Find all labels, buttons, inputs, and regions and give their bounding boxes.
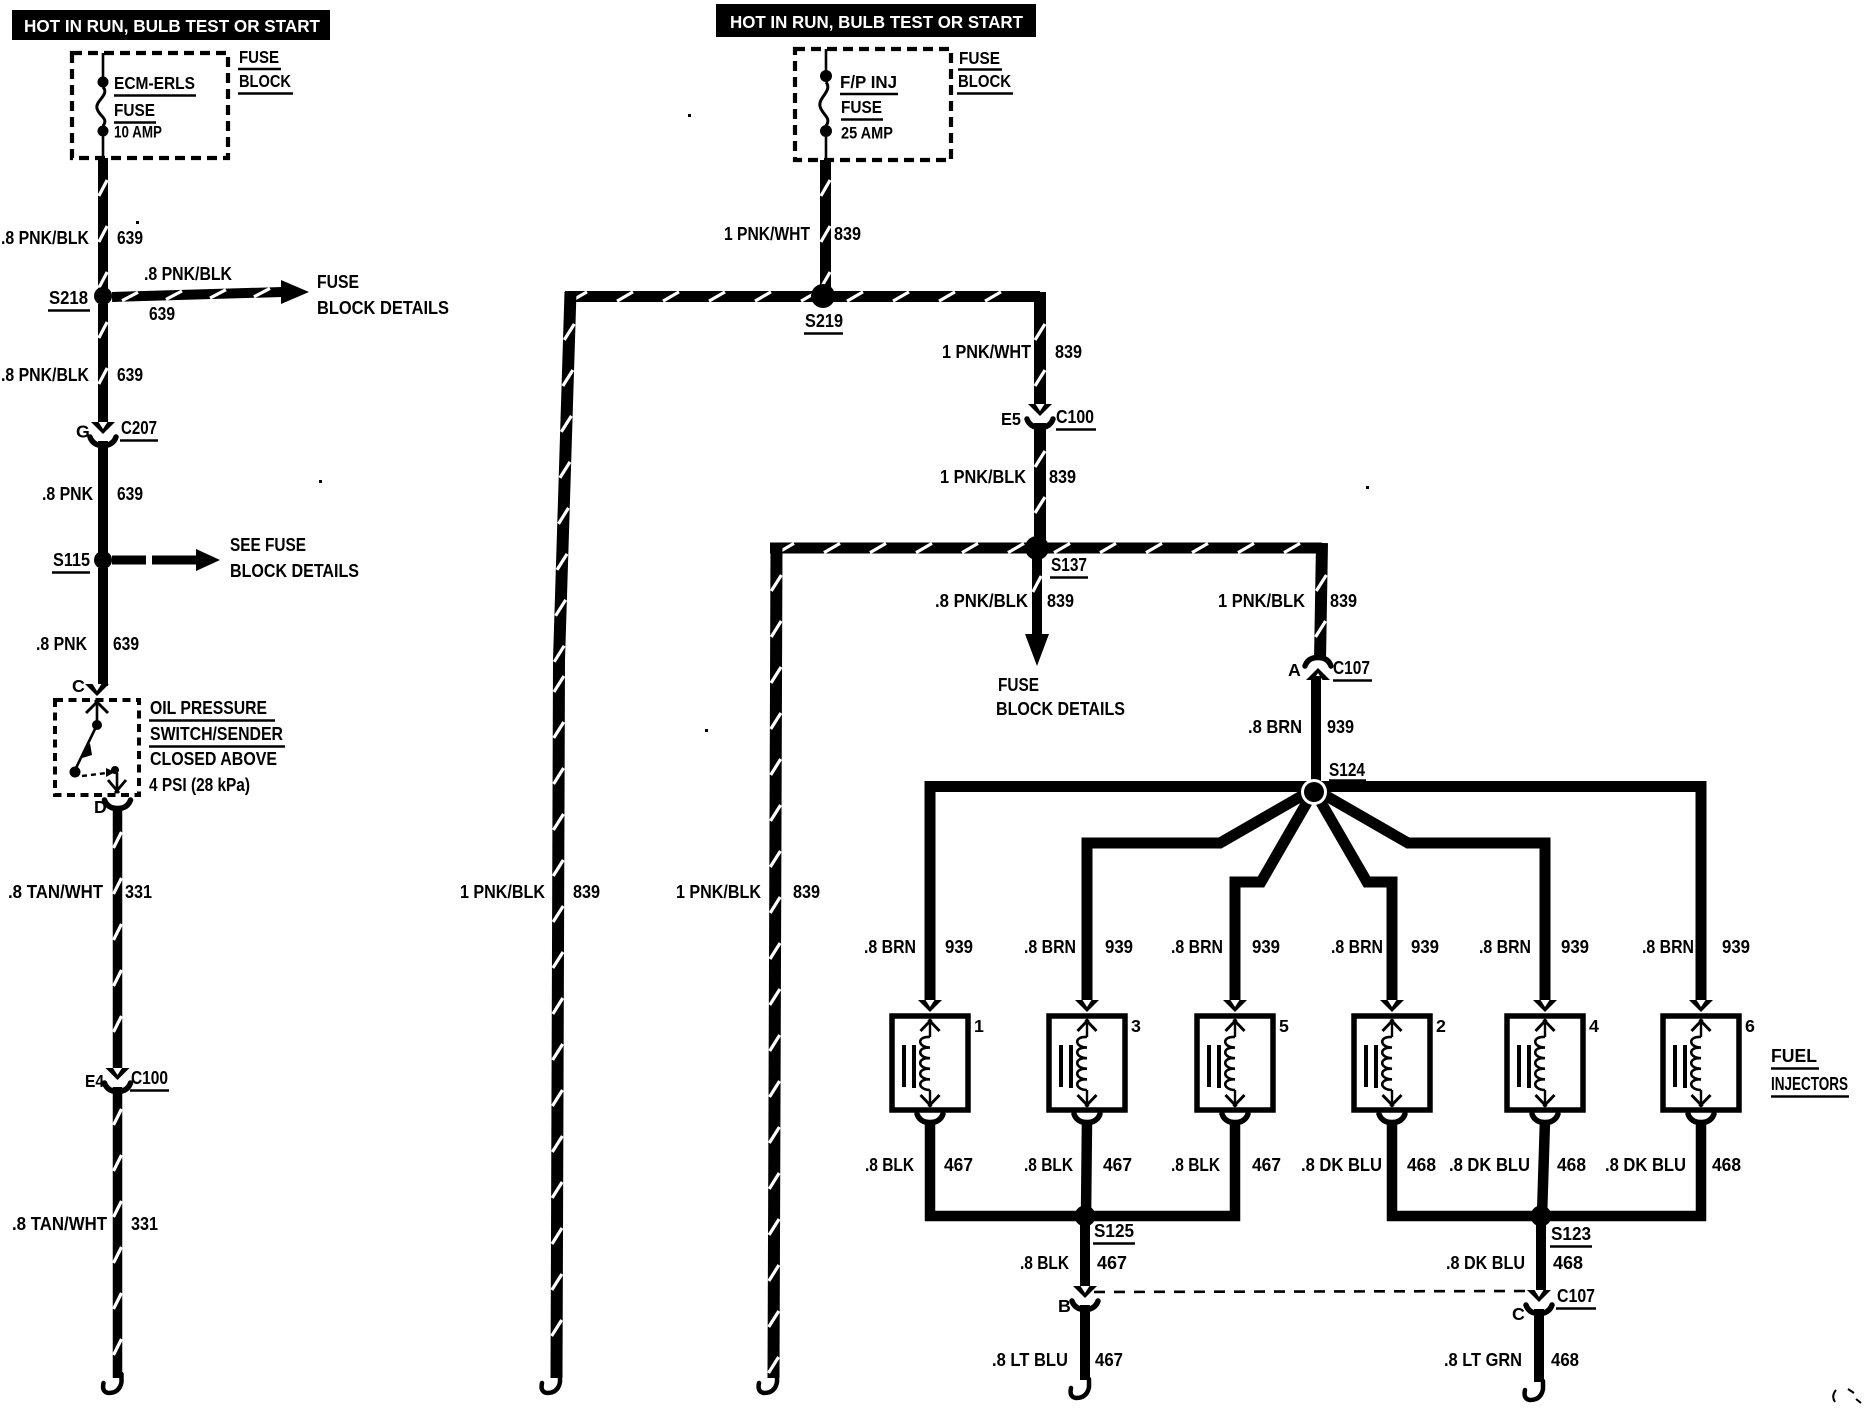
svg-text:5: 5	[1279, 1016, 1289, 1036]
fuel injector 5	[1197, 1000, 1289, 1123]
svg-text:3: 3	[1131, 1016, 1141, 1036]
svg-text:FUSE: FUSE	[959, 48, 1000, 68]
wire 468 .8 DK BLU S123 to C C107	[1536, 1221, 1546, 1292]
svg-text:839: 839	[1330, 591, 1357, 611]
label F/P INJ FUSE 25 AMP	[840, 72, 898, 143]
label .8 PNK/BLK 639 (above C207)	[1, 365, 143, 385]
svg-text:.8 BLK: .8 BLK	[865, 1155, 914, 1175]
svg-text:639: 639	[117, 484, 143, 504]
wire continuation curl (S219 left leg)	[542, 1374, 560, 1393]
svg-text:SWITCH/SENDER: SWITCH/SENDER	[150, 724, 283, 744]
svg-text:BLOCK: BLOCK	[239, 71, 291, 91]
connector C100 pin E4	[85, 1068, 169, 1092]
svg-text:939: 939	[1252, 937, 1280, 957]
svg-text:1 PNK/BLK: 1 PNK/BLK	[940, 467, 1026, 487]
splice S115	[52, 550, 112, 573]
wire 331 .8 TAN/WHT switch to E4 C100 (hatched)	[114, 806, 122, 1068]
svg-text:468: 468	[1551, 1350, 1579, 1370]
label (.8 DK BLU 468 inj4)	[1449, 1155, 1586, 1175]
svg-text:.8 BRN: .8 BRN	[864, 937, 916, 957]
svg-text:1 PNK/BLK: 1 PNK/BLK	[460, 882, 545, 902]
svg-text:331: 331	[125, 882, 152, 902]
svg-text:939: 939	[1105, 937, 1133, 957]
connector C100 pin E5	[1001, 404, 1096, 430]
svg-text:.8 PNK/BLK: .8 PNK/BLK	[935, 591, 1028, 611]
svg-text:939: 939	[1411, 937, 1439, 957]
connector C207 pin G	[76, 418, 158, 446]
wire 468 .8 DK BLU injector 6 to S123	[1541, 1120, 1701, 1216]
label .8 LT GRN 468	[1444, 1350, 1579, 1370]
wire 839 1 PNK/WHT S219 to E5 (hatched)	[1035, 292, 1045, 406]
label .8 PNK/BLK 639 (branch)	[144, 264, 232, 324]
svg-text:467: 467	[1095, 1350, 1123, 1370]
svg-text:FUSE: FUSE	[317, 272, 359, 292]
svg-text:.8 PNK: .8 PNK	[36, 634, 87, 654]
label FUSE BLOCK DETAILS (center)	[996, 675, 1125, 719]
wire 839 .8 PNK/BLK S137 down arrow to fuse block details (hatched)	[1025, 554, 1049, 666]
splice S124	[1301, 760, 1366, 805]
oil pressure switch/sender dashed box	[55, 700, 139, 795]
label FUSE BLOCK (right)	[957, 48, 1013, 94]
svg-text:E5: E5	[1001, 409, 1021, 429]
svg-text:839: 839	[793, 882, 820, 902]
svg-text:FUSE: FUSE	[841, 97, 882, 117]
svg-text:HOT IN RUN, BULB TEST OR START: HOT IN RUN, BULB TEST OR START	[730, 12, 1023, 32]
svg-text:E4: E4	[85, 1071, 104, 1091]
svg-text:467: 467	[1252, 1155, 1281, 1175]
wire 839 1 PNK/BLK S219 left leg to bottom (hatched)	[552, 292, 575, 1378]
label (.8 BLK 467 inj5)	[1171, 1155, 1281, 1175]
label 1 PNK/BLK 839 (left leg)	[460, 882, 600, 902]
svg-text:.8 LT GRN: .8 LT GRN	[1444, 1350, 1522, 1370]
svg-text:BLOCK DETAILS: BLOCK DETAILS	[230, 561, 359, 581]
svg-text:FUEL: FUEL	[1771, 1046, 1817, 1066]
svg-text:1 PNK/BLK: 1 PNK/BLK	[1218, 591, 1305, 611]
svg-text:639: 639	[113, 634, 139, 654]
label .8 BRN 939 (above S124)	[1248, 717, 1354, 737]
svg-text:.8 PNK/BLK: .8 PNK/BLK	[1, 228, 89, 248]
label .8 BRN 939 (injector 3)	[1024, 937, 1133, 957]
svg-text:.8 BRN: .8 BRN	[1479, 937, 1531, 957]
wire S137 horizontal run (hatched)	[770, 543, 1322, 552]
svg-text:939: 939	[945, 937, 973, 957]
svg-text:ECM-ERLS: ECM-ERLS	[114, 73, 195, 93]
node: HOT IN RUN, BULB TEST OR START feed (left)	[12, 10, 330, 40]
svg-text:1 PNK/WHT: 1 PNK/WHT	[942, 342, 1031, 362]
splice S123	[1531, 1206, 1593, 1247]
svg-text:.8 BRN: .8 BRN	[1024, 937, 1076, 957]
fuel injector 3	[1049, 1000, 1141, 1123]
label (.8 DK BLU 468 inj2)	[1301, 1155, 1436, 1175]
svg-text:939: 939	[1327, 717, 1354, 737]
node: HOT IN RUN, BULB TEST OR START feed (right)	[716, 4, 1036, 37]
svg-text:.8 PNK/BLK: .8 PNK/BLK	[1, 365, 89, 385]
svg-text:C107: C107	[1333, 658, 1370, 678]
wire 331 .8 TAN/WHT E4 to bottom (hatched)	[114, 1087, 122, 1378]
splice S125	[1075, 1206, 1136, 1244]
svg-text:.8 DK BLU: .8 DK BLU	[1446, 1253, 1525, 1273]
arrow S115 see fuse block details	[112, 549, 220, 571]
svg-text:F/P INJ: F/P INJ	[840, 72, 897, 92]
wire 639 .8 PNK S115 to oil pressure switch	[98, 568, 108, 686]
svg-text:467: 467	[1097, 1253, 1127, 1273]
wire S124 branch to injector 5	[1235, 792, 1313, 1004]
wire 639 .8 PNK C207 to S115	[98, 441, 108, 553]
svg-text:1: 1	[974, 1016, 984, 1036]
svg-text:HOT IN RUN, BULB TEST OR START: HOT IN RUN, BULB TEST OR START	[24, 16, 320, 36]
wire continuation curl (LT GRN)	[1525, 1381, 1543, 1400]
wire 839 1 PNK/WHT fuse to S219 (hatched)	[821, 160, 830, 291]
connector pin C at oil pressure switch	[72, 676, 109, 696]
wire S124 branch to injector 2	[1315, 792, 1392, 1004]
label FUSE BLOCK DETAILS (left branch)	[317, 272, 449, 318]
svg-text:839: 839	[834, 224, 861, 244]
svg-text:468: 468	[1553, 1253, 1583, 1273]
label .8 PNK/BLK 639 (upper left)	[1, 228, 143, 248]
wire S124 branch to injector 3	[1087, 790, 1312, 1004]
svg-text:.8 BRN: .8 BRN	[1171, 937, 1223, 957]
svg-text:1 PNK/WHT: 1 PNK/WHT	[724, 224, 810, 244]
svg-text:468: 468	[1712, 1155, 1741, 1175]
svg-text:.8 PNK/BLK: .8 PNK/BLK	[144, 264, 232, 284]
svg-text:S218: S218	[49, 288, 88, 308]
svg-text:2: 2	[1436, 1016, 1446, 1036]
svg-text:467: 467	[944, 1155, 973, 1175]
label FUSE BLOCK (left)	[238, 47, 293, 94]
wire 468 .8 DK BLU injector 4 to S123	[1542, 1120, 1545, 1216]
svg-text:.8 BRN: .8 BRN	[1248, 717, 1302, 737]
wire 467 .8 BLK injector 1 to S125	[930, 1120, 1085, 1216]
label .8 DK BLU 468 (below S123)	[1446, 1253, 1583, 1273]
fuel injector 2	[1354, 1000, 1446, 1123]
label .8 PNK 639 (above switch)	[36, 634, 139, 654]
svg-text:A: A	[1288, 660, 1301, 680]
label (.8 BLK 467 inj3)	[1024, 1155, 1132, 1175]
svg-text:.8 TAN/WHT: .8 TAN/WHT	[8, 882, 103, 902]
svg-text:.8 DK BLU: .8 DK BLU	[1605, 1155, 1686, 1175]
label .8 BRN 939 (injector 6)	[1642, 937, 1750, 957]
wire S124 branch to injector 4	[1316, 790, 1545, 1004]
wire 639 .8 PNK/BLK fuse to S218 (hatched)	[99, 158, 107, 291]
label .8 PNK 639 (above S115)	[42, 484, 143, 504]
svg-text:.8 BLK: .8 BLK	[1171, 1155, 1220, 1175]
svg-text:C: C	[1512, 1304, 1525, 1324]
svg-text:839: 839	[1049, 467, 1076, 487]
svg-text:S125: S125	[1094, 1221, 1134, 1241]
svg-text:6: 6	[1745, 1016, 1755, 1036]
wire 467 .8 BLK S125 to B C107	[1080, 1221, 1090, 1288]
svg-text:BLOCK DETAILS: BLOCK DETAILS	[996, 699, 1125, 719]
fuse F/P INJ FUSE 25 AMP	[820, 49, 832, 160]
label .8 TAN/WHT 331 (lower)	[12, 1214, 158, 1234]
svg-text:467: 467	[1103, 1155, 1132, 1175]
label .8 BRN 939 (injector 1)	[864, 937, 973, 957]
svg-text:.8 TAN/WHT: .8 TAN/WHT	[12, 1214, 107, 1234]
label 1 PNK/WHT 839 (above S219)	[724, 224, 861, 244]
wire 839 1 PNK/BLK E5 to S137 (hatched)	[1035, 423, 1045, 542]
splice S219	[804, 284, 843, 334]
wire S219 horizontal run (hatched)	[565, 292, 1040, 301]
svg-text:839: 839	[1055, 342, 1082, 362]
svg-text:839: 839	[1047, 591, 1074, 611]
fuse ECM-ERLS FUSE 10 AMP	[97, 53, 109, 158]
label OIL PRESSURE SWITCH/SENDER CLOSED ABOVE 4 PSI (28 kPa)	[149, 698, 285, 795]
splice S218	[48, 287, 112, 311]
fuel injector 4	[1507, 1000, 1599, 1123]
svg-text:G: G	[76, 422, 90, 442]
connector C107 pin B	[1058, 1286, 1098, 1316]
svg-text:4 PSI (28 kPa): 4 PSI (28 kPa)	[149, 775, 250, 795]
label (.8 BLK 467 inj1)	[865, 1155, 973, 1175]
svg-text:839: 839	[573, 882, 600, 902]
wire 939 .8 BRN C107 to S124	[1311, 676, 1321, 786]
svg-text:CLOSED ABOVE: CLOSED ABOVE	[150, 749, 277, 769]
svg-text:.8 BLK: .8 BLK	[1024, 1155, 1073, 1175]
connector C107 pin A	[1288, 658, 1372, 681]
svg-text:.8 BRN: .8 BRN	[1642, 937, 1694, 957]
svg-text:939: 939	[1722, 937, 1750, 957]
wire 467 .8 LT BLU B to bottom	[1080, 1305, 1090, 1380]
svg-text:OIL PRESSURE: OIL PRESSURE	[150, 698, 267, 718]
label .8 LT BLU 467	[992, 1350, 1123, 1370]
svg-text:.8 DK BLU: .8 DK BLU	[1449, 1155, 1530, 1175]
svg-text:639: 639	[149, 304, 175, 324]
svg-text:C107: C107	[1557, 1286, 1595, 1306]
dashed connector line B to C (C107)	[1094, 1291, 1528, 1292]
label 1 PNK/BLK 839 (above S137)	[940, 467, 1076, 487]
wire 639 .8 PNK/BLK S218 to C207 (hatched)	[99, 304, 107, 426]
svg-text:.8 BLK: .8 BLK	[1020, 1253, 1069, 1273]
label .8 BRN 939 (injector 4)	[1479, 937, 1589, 957]
svg-text:FUSE: FUSE	[998, 675, 1039, 695]
svg-text:C100: C100	[1056, 407, 1094, 427]
svg-text:639: 639	[117, 365, 143, 385]
label SEE FUSE BLOCK DETAILS	[230, 535, 359, 581]
label 1 PNK/BLK 839 (right leg)	[1218, 591, 1357, 611]
svg-text:BLOCK DETAILS: BLOCK DETAILS	[317, 298, 449, 318]
label .8 BRN 939 (injector 5)	[1171, 937, 1280, 957]
label .8 TAN/WHT 331 (upper)	[8, 882, 152, 902]
svg-text:939: 939	[1561, 937, 1589, 957]
wire 639 .8 PNK/BLK S218 branch arrow to fuse block details (hatched)	[112, 280, 309, 304]
label 1 PNK/BLK 839 (S137 left leg)	[676, 882, 820, 902]
wire 468 .8 DK BLU injector 2 to S123	[1392, 1120, 1541, 1216]
svg-text:FUSE: FUSE	[239, 47, 279, 67]
wire continuation curl (LT BLU)	[1071, 1379, 1089, 1398]
label .8 BLK 467 (below S125)	[1020, 1253, 1127, 1273]
svg-text:BLOCK: BLOCK	[958, 71, 1011, 91]
svg-text:.8 PNK: .8 PNK	[42, 484, 93, 504]
wire 467 .8 BLK injector 3 to S125	[1086, 1120, 1087, 1216]
svg-text:FUSE: FUSE	[114, 100, 155, 120]
svg-text:C: C	[72, 676, 85, 696]
svg-text:331: 331	[131, 1214, 158, 1234]
wire continuation curl (left circuit)	[103, 1374, 121, 1393]
label (.8 DK BLU 468 inj6)	[1605, 1155, 1741, 1175]
svg-text:C100: C100	[131, 1068, 168, 1088]
wire continuation curl (S137 left leg)	[759, 1374, 777, 1393]
wire 839 1 PNK/BLK S137 right leg to C107 (hatched)	[1316, 543, 1327, 660]
svg-text:468: 468	[1407, 1155, 1436, 1175]
wire 468 .8 LT GRN C to bottom	[1534, 1309, 1544, 1382]
svg-text:B: B	[1058, 1296, 1071, 1316]
wire 839 1 PNK/BLK S137 left leg to bottom (hatched)	[769, 543, 782, 1378]
connector pin D below oil pressure switch	[94, 797, 131, 817]
svg-text:S123: S123	[1551, 1224, 1591, 1244]
svg-text:S115: S115	[53, 550, 90, 570]
fuse block (left) dashed outline	[72, 53, 228, 158]
label ECM-ERLS FUSE 10 AMP	[114, 73, 196, 142]
label .8 PNK/BLK 839 (down arrow)	[935, 591, 1074, 611]
svg-text:639: 639	[117, 228, 143, 248]
label FUEL INJECTORS	[1771, 1046, 1849, 1097]
svg-text:C207: C207	[121, 418, 157, 438]
svg-text:.8 DK BLU: .8 DK BLU	[1301, 1155, 1382, 1175]
svg-text:.8 BRN: .8 BRN	[1331, 937, 1383, 957]
svg-text:S124: S124	[1329, 760, 1366, 780]
svg-text:10 AMP: 10 AMP	[114, 124, 162, 142]
connector C107 pin C	[1512, 1286, 1596, 1324]
svg-text:.8 LT BLU: .8 LT BLU	[992, 1350, 1068, 1370]
svg-text:INJECTORS: INJECTORS	[1771, 1074, 1848, 1094]
svg-text:468: 468	[1557, 1155, 1586, 1175]
svg-text:SEE FUSE: SEE FUSE	[230, 535, 306, 555]
wire 467 .8 BLK injector 5 to S125	[1085, 1120, 1235, 1216]
svg-text:4: 4	[1589, 1016, 1599, 1036]
wire S124 right horizontal to injector 6	[1314, 787, 1701, 1005]
wire S124 left horizontal to injector 1	[930, 787, 1314, 1005]
svg-text:1 PNK/BLK: 1 PNK/BLK	[676, 882, 761, 902]
label 1 PNK/WHT 839 (above E5)	[942, 342, 1082, 362]
label .8 BRN 939 (injector 2)	[1331, 937, 1439, 957]
svg-text:S219: S219	[805, 311, 843, 331]
svg-text:S137: S137	[1051, 555, 1087, 575]
svg-text:25 AMP: 25 AMP	[841, 125, 893, 143]
fuse block (right) dashed outline	[795, 49, 951, 160]
oil pressure switch contacts	[70, 700, 127, 793]
fuel injector 1	[892, 1000, 984, 1123]
fuel injector 6	[1663, 1000, 1755, 1123]
splice S137	[1025, 536, 1088, 578]
